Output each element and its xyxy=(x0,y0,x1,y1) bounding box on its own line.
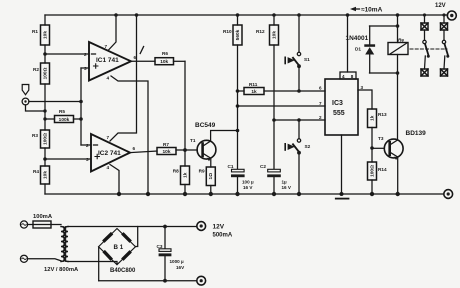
wire input L to divider xyxy=(26,105,46,111)
wire diode/relay bottom xyxy=(370,72,398,74)
svg-text:16V: 16V xyxy=(176,265,185,270)
junction node S1 to pin6 wire xyxy=(297,89,301,93)
svg-text:R3: R3 xyxy=(32,133,38,138)
svg-text:1µ: 1µ xyxy=(282,180,288,185)
junction node IC1 pin4 ground xyxy=(146,192,150,196)
junction node pin7 wire xyxy=(236,104,240,108)
wire primary bottom xyxy=(28,259,61,261)
wire bridge minus drop xyxy=(98,247,100,281)
ground tick xyxy=(336,198,349,200)
svg-text:R9: R9 xyxy=(199,169,205,174)
svg-text:500mA: 500mA xyxy=(213,233,233,239)
junction node IC2 pin7 rail xyxy=(135,13,139,17)
junction node R8 ground xyxy=(183,192,187,196)
junction node C1 ground xyxy=(235,192,239,196)
svg-text:8: 8 xyxy=(351,74,354,79)
wire IC3 pin3 output xyxy=(358,90,372,109)
resistor R12 xyxy=(270,15,279,120)
switch S2 xyxy=(285,120,301,194)
rotated resistor values xyxy=(42,29,375,179)
svg-text:100Ω: 100Ω xyxy=(369,165,375,177)
wire IC2 pin4 to ground xyxy=(110,165,119,195)
svg-text:1Ω: 1Ω xyxy=(208,173,214,180)
junction node C2 ground xyxy=(272,192,276,196)
svg-text:S1: S1 xyxy=(304,57,310,62)
svg-text:16 V: 16 V xyxy=(282,185,292,190)
junction node relay top xyxy=(396,24,400,28)
wire diode/relay top xyxy=(370,25,398,27)
diode D1 1N4001 xyxy=(364,26,375,73)
junction node pin7 rail xyxy=(114,13,118,17)
svg-text:C2: C2 xyxy=(260,164,266,169)
svg-text:100Ω: 100Ω xyxy=(42,133,48,145)
relay contact 2 xyxy=(441,15,450,76)
resistor R2 xyxy=(41,54,50,102)
svg-text:7: 7 xyxy=(319,101,322,106)
wire IC3 pin7 xyxy=(238,105,326,107)
capacitor C2 xyxy=(267,120,281,194)
fuse F1 xyxy=(28,221,61,228)
wire IC2 pin3 xyxy=(45,158,91,160)
svg-text:R4: R4 xyxy=(33,169,39,174)
svg-text:R2: R2 xyxy=(33,67,39,72)
junction node relay bottom xyxy=(396,71,400,75)
svg-text:R8: R8 xyxy=(173,169,179,174)
wire IC2 pin7 to rail xyxy=(110,15,137,141)
svg-text:2: 2 xyxy=(84,52,87,57)
junction node S2 ground xyxy=(297,192,301,196)
resistor R10 xyxy=(233,15,242,91)
svg-text:2: 2 xyxy=(319,115,322,120)
resistor R4 xyxy=(41,159,50,194)
wire IC2 pin2 stub xyxy=(81,144,91,146)
wire top +12V rail xyxy=(45,14,448,16)
junction node T3 base xyxy=(370,146,374,150)
wire R6 down to T1 base node xyxy=(184,61,186,150)
junction node relay rail xyxy=(396,13,400,17)
svg-text:100k: 100k xyxy=(59,117,70,123)
svg-text:6: 6 xyxy=(319,86,322,91)
svg-text:3: 3 xyxy=(84,66,87,71)
junction node R14 ground xyxy=(370,192,374,196)
svg-text:R14: R14 xyxy=(378,167,387,172)
svg-text:7: 7 xyxy=(105,44,108,49)
junction node R1/R2/pin2 xyxy=(43,52,47,56)
svg-text:560k: 560k xyxy=(235,29,241,40)
junction node C3 top xyxy=(163,225,167,229)
transformer TR1 xyxy=(61,227,68,262)
resistor R5 xyxy=(45,116,81,123)
node output terminal bottom right xyxy=(444,190,453,199)
svg-text:3: 3 xyxy=(361,85,364,90)
resistor R13 xyxy=(368,109,377,148)
junction node R9 ground xyxy=(209,192,213,196)
wire IC2 output xyxy=(130,151,157,153)
resistor R8 xyxy=(181,150,190,194)
relay contact 1 xyxy=(421,15,430,76)
junction node C3 bottom xyxy=(163,279,167,283)
junction node R5 right xyxy=(79,117,83,121)
junction node contact1 rail xyxy=(423,13,426,16)
wire bottom ground rail xyxy=(45,193,444,195)
svg-text:100mA: 100mA xyxy=(33,214,53,220)
svg-text:T3: T3 xyxy=(378,136,384,141)
junction node T3 emitter ground xyxy=(396,192,400,196)
svg-text:4: 4 xyxy=(107,76,110,81)
svg-text:D1: D1 xyxy=(355,47,361,52)
wire relay actuator dashed xyxy=(410,48,447,50)
svg-text:1k: 1k xyxy=(251,89,257,95)
svg-text:R11: R11 xyxy=(249,82,258,87)
wire secondary top to +terminal xyxy=(68,226,197,228)
junction node T1 base xyxy=(183,148,187,152)
svg-text:S2: S2 xyxy=(305,144,311,149)
svg-text:1N4001: 1N4001 xyxy=(346,35,369,42)
node PSU - terminal xyxy=(197,276,206,285)
node slash annotation xyxy=(140,47,143,54)
wire R2-R3 link xyxy=(44,102,46,131)
wire bridge plus riser xyxy=(136,227,138,247)
junction node T1 collector to C1 line xyxy=(236,129,240,133)
wire node down to T1 collector xyxy=(237,106,239,131)
capacitor values xyxy=(170,180,292,271)
svg-text:C3: C3 xyxy=(157,244,163,249)
svg-text:1000 µ: 1000 µ xyxy=(170,259,184,264)
svg-text:1k: 1k xyxy=(182,172,188,178)
node PSU + terminal xyxy=(197,222,206,231)
junction node IC3 ground xyxy=(340,192,344,196)
switch S1 xyxy=(285,15,301,91)
svg-text:R5: R5 xyxy=(59,109,65,114)
wire secondary bottom xyxy=(68,262,117,265)
wire psu bottom rail xyxy=(99,280,197,282)
wire input to IC1 pin3 node xyxy=(29,101,81,103)
IC3 555 timer xyxy=(325,15,358,135)
svg-text:4: 4 xyxy=(107,165,110,170)
svg-text:10k: 10k xyxy=(42,171,48,179)
svg-text:IC2 741: IC2 741 xyxy=(98,150,121,157)
svg-text:R10: R10 xyxy=(223,29,232,34)
svg-text:BC549: BC549 xyxy=(195,122,216,129)
svg-text:R1: R1 xyxy=(32,29,38,34)
node input arrow symbol xyxy=(22,85,29,95)
svg-text:≈10mA: ≈10mA xyxy=(361,7,383,14)
wire IC3 pin1 ground xyxy=(341,135,343,194)
svg-text:7: 7 xyxy=(107,135,110,140)
resistor R11 xyxy=(238,88,326,95)
junction node IC2 pin4 ground xyxy=(117,192,121,196)
transistor T1 BC549 xyxy=(197,131,237,168)
wire IC1 pin7 to rail xyxy=(108,15,116,51)
svg-text:12V / 800mA: 12V / 800mA xyxy=(44,267,79,273)
node input terminal xyxy=(22,98,29,105)
relay Re coil xyxy=(388,43,408,55)
resistor R9 xyxy=(206,167,215,194)
svg-text:4: 4 xyxy=(342,74,345,79)
transistor T3 BD139 xyxy=(384,73,403,194)
svg-text:6: 6 xyxy=(133,146,136,151)
junction node pin2 wire left xyxy=(272,118,276,122)
svg-text:R12: R12 xyxy=(256,29,265,34)
junction node vert at x81 y101 xyxy=(79,100,83,104)
svg-text:Re: Re xyxy=(398,38,404,43)
svg-text:10k: 10k xyxy=(271,31,277,39)
junction node contact2 rail xyxy=(442,13,445,16)
wire IC1 pin3 stub xyxy=(81,67,89,69)
svg-text:16 V: 16 V xyxy=(243,185,253,190)
wire current arrow ~10mA annotation xyxy=(350,7,360,11)
resistor R14 xyxy=(368,148,377,194)
wire relay riser xyxy=(397,15,399,73)
resistor R3 xyxy=(41,130,50,159)
wire R10 down to pin7 node xyxy=(237,91,239,106)
svg-text:100 µ: 100 µ xyxy=(242,180,254,185)
svg-text:12V: 12V xyxy=(435,3,446,9)
wire T3 base xyxy=(372,147,384,149)
svg-text:10k: 10k xyxy=(42,31,48,39)
op-amp IC2 xyxy=(91,134,130,172)
node 12V terminal top right xyxy=(447,11,456,20)
junction node S1 rail xyxy=(297,13,301,17)
wire IC1 pin4 to ground rail xyxy=(111,76,148,194)
op-amp IC1 xyxy=(89,42,131,81)
svg-text:6: 6 xyxy=(134,55,137,60)
svg-text:R7: R7 xyxy=(163,142,169,147)
junction node R10/R11 xyxy=(236,89,240,93)
node AC terminal 2 xyxy=(20,255,27,262)
svg-text:IC1 741: IC1 741 xyxy=(96,57,119,64)
svg-text:1k: 1k xyxy=(369,115,375,121)
node AC terminal 1 xyxy=(20,221,27,228)
resistor R6 xyxy=(155,58,185,65)
capacitor C3 xyxy=(159,227,172,281)
svg-text:100Ω: 100Ω xyxy=(42,67,48,79)
svg-text:R13: R13 xyxy=(378,112,387,117)
svg-text:B40C800: B40C800 xyxy=(110,268,136,274)
PSU labels xyxy=(33,214,233,274)
junction node R12 rail xyxy=(272,13,276,17)
svg-text:IC3: IC3 xyxy=(332,100,343,107)
wire IC3 pin2 xyxy=(274,119,325,121)
junction node R5 left xyxy=(43,117,46,120)
wire node line IC1pin3 to IC2pin2 xyxy=(80,68,82,145)
resistor R1 xyxy=(41,15,50,54)
junction node S2 top xyxy=(297,118,301,122)
bridge rectifier B1 xyxy=(99,229,136,265)
resistor R7 xyxy=(157,148,197,155)
junction node R3/R4/IC2pin3 xyxy=(43,157,47,161)
junction node IC3 pin4/8 rail xyxy=(346,13,350,17)
svg-text:10k: 10k xyxy=(162,149,170,155)
svg-text:12V: 12V xyxy=(213,224,225,231)
capacitor C1 xyxy=(231,131,245,195)
svg-text:BD139: BD139 xyxy=(406,130,427,137)
svg-text:T1: T1 xyxy=(190,138,196,143)
svg-text:2: 2 xyxy=(86,143,89,148)
svg-text:R6: R6 xyxy=(162,51,168,56)
svg-text:555: 555 xyxy=(333,110,345,117)
junction node R10 rail xyxy=(236,13,240,17)
svg-text:3: 3 xyxy=(86,157,89,162)
svg-text:C1: C1 xyxy=(228,164,234,169)
junction node input L-wire xyxy=(43,109,46,112)
wire IC1 output xyxy=(131,60,155,62)
svg-text:B 1: B 1 xyxy=(114,244,124,251)
svg-text:10k: 10k xyxy=(160,59,168,65)
wire IC1 pin2 xyxy=(45,53,89,55)
